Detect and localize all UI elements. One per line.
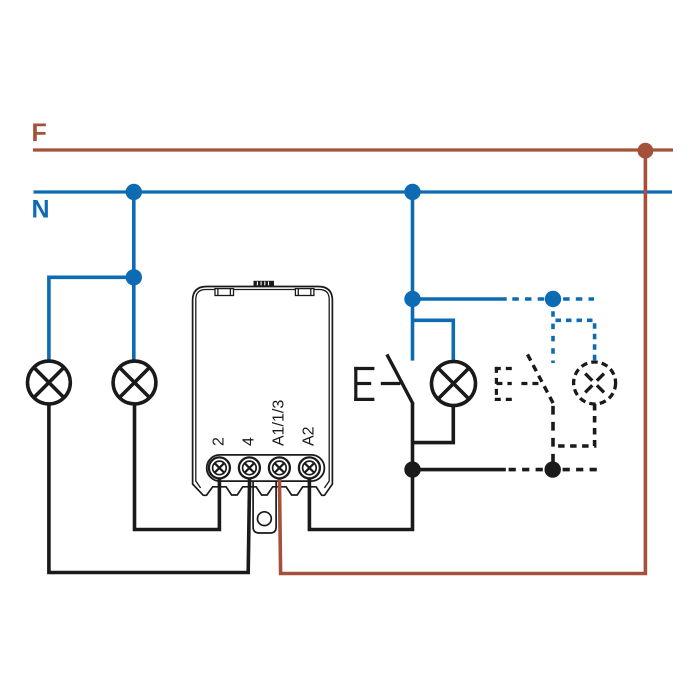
terminal screw 4: [239, 457, 260, 478]
relay module K1: body outline with scalloped bottom: [193, 287, 333, 496]
optional lamp E4 (dashed): [574, 362, 616, 404]
lamp E2: [113, 361, 156, 404]
switch S1 blade: [387, 354, 413, 404]
optional switch S2 (dashed) actuator: [495, 367, 541, 401]
wire: dashed jog to optional lamp (blue): [553, 320, 595, 360]
wire: switch S1 to node A (black): [411, 403, 415, 470]
relay module K1: top tab: [254, 281, 275, 287]
svg-text:2: 2: [210, 437, 227, 446]
node: optional return junction: [545, 461, 561, 477]
wire: left lamp feeder branch (blue): [49, 277, 134, 361]
relay module K1: right clip: [295, 289, 314, 296]
node A: switch return junction: [404, 461, 420, 477]
wire: lamp E2 to terminal 2 (black): [135, 404, 220, 530]
node: neutral rail junction optional: [545, 291, 561, 307]
wire: optional switch drop (dashed black): [551, 404, 555, 470]
wire: lamp E3 return jog (black): [413, 405, 454, 443]
node: N junction right: [404, 184, 420, 200]
wire: neutral drop to left lamps (blue): [132, 192, 136, 277]
relay module K1: mounting tab: [253, 482, 276, 533]
node: phase branch junction: [638, 143, 654, 159]
relay module K1: inner case line: [196, 290, 329, 489]
wire: terminal A2 to node A (black): [309, 470, 412, 530]
wire: dashed drop to optional switch (blue): [551, 299, 555, 363]
svg-text:A2: A2: [300, 426, 317, 446]
wire: dashed extension of node A rail (black): [506, 468, 597, 472]
relay module K1: left clip: [215, 289, 234, 296]
lamp E3: [432, 362, 476, 406]
wire: lamp E1 to terminal 4 (black): [49, 404, 250, 573]
wire: terminal A1/1/3 to phase F (brown): [279, 151, 645, 574]
wire: phase line F: [33, 148, 673, 151]
switch S1 manual actuator symbol: [354, 367, 400, 401]
wire: solid neutral stub to dashed branch (blue): [413, 297, 507, 301]
lamp E1: [28, 361, 71, 404]
svg-text:4: 4: [240, 437, 257, 446]
svg-text:N: N: [32, 196, 50, 224]
wire: neutral drop to switch (blue): [411, 192, 415, 361]
wire: optional lamp return jog (dashed black): [553, 404, 595, 446]
wire: neutral line N: [34, 190, 673, 193]
wire: node A solid stub right (black): [413, 468, 506, 472]
terminal screw A2: [299, 457, 320, 478]
optional switch S2 blade (dashed): [528, 354, 554, 404]
relay module K1: terminal strip: [207, 455, 325, 481]
wire: dashed neutral extension (blue): [507, 297, 594, 301]
wire: blue jog to lamp E3: [413, 320, 454, 362]
node: left lamp branch junction: [126, 269, 142, 285]
svg-text:F: F: [32, 119, 47, 147]
terminal screw A1/1/3: [269, 457, 290, 478]
svg-text:A1/1/3: A1/1/3: [270, 400, 287, 446]
node: N junction left: [126, 184, 142, 200]
terminal screw 2: [209, 457, 230, 478]
node: neutral rail junction at switch: [404, 291, 420, 307]
